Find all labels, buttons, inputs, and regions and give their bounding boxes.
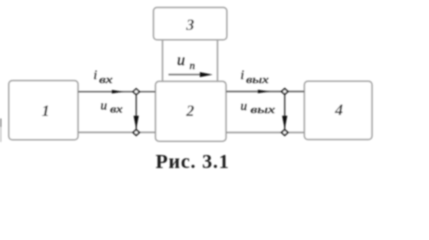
svg-text:i: i [94,67,98,82]
svg-text:вых: вых [250,105,275,116]
arrowhead u_вых down [282,116,287,130]
wire neck right (block 3 to block 2) [217,40,219,82]
arrowhead u_вх down [134,116,139,130]
wire u_вых vertical connector [284,92,286,133]
block 3 [154,8,227,40]
wire neck left (block 3 to block 2) [162,40,164,82]
node diamond input top [133,89,139,95]
block 4 [304,81,372,139]
arrowhead i_вх [112,90,124,94]
svg-text:п: п [190,60,196,72]
wire arrow u_п [169,74,203,76]
svg-text:Рис. 3.1: Рис. 3.1 [156,151,230,173]
svg-text:2: 2 [185,103,194,120]
wire input bottom [78,131,156,133]
svg-text:i: i [241,67,245,82]
svg-text:1: 1 [42,103,50,120]
svg-text:3: 3 [185,17,194,34]
node diamond output bottom [282,130,288,136]
node diamond output top [282,89,288,95]
svg-text:u: u [241,98,248,113]
wire output bottom [226,132,304,134]
svg-text:u: u [101,98,108,113]
svg-text:вх: вх [99,75,113,86]
svg-text:вых: вых [246,75,269,86]
svg-text:вх: вх [110,104,123,115]
wire input top (i_вх) [78,91,156,93]
wire output top (i_вых) [226,91,304,93]
node diamond input bottom [133,130,139,136]
arrowhead i_вых [258,90,270,94]
block 2 [156,81,227,141]
svg-text:4: 4 [334,102,343,119]
wire u_вх vertical connector [135,92,137,133]
block 1 [9,81,78,140]
scan artifact left edge [0,119,2,128]
svg-text:u: u [177,52,185,69]
